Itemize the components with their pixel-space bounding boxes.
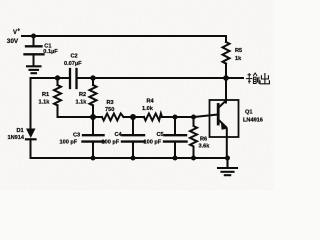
value label C5 100pF	[144, 132, 164, 146]
capacitor C3	[83, 117, 105, 158]
node junction dot rail3 / R6 top	[191, 115, 196, 120]
svg-text:C5: C5	[157, 132, 164, 138]
node junction dot rail3 / C3 top	[90, 114, 96, 120]
node junction dot C1 top	[31, 34, 36, 39]
svg-text:100 pF: 100 pF	[102, 140, 120, 146]
node junction dot bottom R6	[191, 156, 196, 161]
svg-text:1.0k: 1.0k	[142, 106, 154, 112]
svg-text:D1: D1	[17, 128, 24, 134]
node output label (Chinese: chu - output) drawn as strokes	[260, 73, 269, 84]
node junction dot bottom C5	[173, 156, 178, 161]
svg-text:1.1k: 1.1k	[39, 100, 51, 106]
node junction dot R1 top	[55, 75, 60, 80]
capacitor C5	[164, 117, 187, 158]
svg-text:750: 750	[105, 107, 114, 113]
svg-text:C3: C3	[73, 133, 80, 139]
resistor R1	[54, 78, 61, 117]
wire top rail	[22, 35, 226, 37]
wire collector column	[225, 78, 227, 100]
resistor R5	[223, 36, 230, 78]
node junction dot R2 top	[90, 75, 95, 80]
value label C4 100pF	[102, 132, 123, 146]
value label Q1 LN4916	[243, 110, 263, 124]
resistor R2	[90, 78, 97, 117]
svg-text:R6: R6	[200, 137, 207, 143]
capacitor C4	[122, 117, 145, 158]
svg-text:R1: R1	[42, 92, 49, 98]
node junction dot output / collector	[223, 75, 229, 81]
svg-text:C4: C4	[115, 132, 123, 138]
svg-text:100 pF: 100 pF	[144, 140, 162, 146]
value label C2 0.07uF	[64, 54, 82, 67]
svg-text:3.6k: 3.6k	[199, 144, 211, 150]
node junction dot bottom emitter	[225, 156, 230, 161]
resistor R4	[144, 114, 162, 121]
node V+ supply label	[7, 28, 20, 46]
svg-text:100 pF: 100 pF	[60, 140, 78, 146]
value label C1 0.1uF	[43, 44, 58, 55]
node junction dot bottom C4	[131, 156, 136, 161]
diode D1	[26, 78, 36, 158]
node junction dot rail3 / C4 top	[130, 114, 136, 120]
svg-text:1.1k: 1.1k	[76, 100, 88, 106]
svg-text:+: +	[17, 28, 20, 34]
svg-text:0.07µF: 0.07µF	[64, 61, 82, 67]
svg-text:1N914: 1N914	[8, 135, 25, 141]
wire rail2 right segment	[77, 77, 227, 79]
value label R3 750	[105, 100, 114, 113]
wire rail3 (R1 bottom across to transistor base)	[57, 105, 59, 117]
svg-text:1k: 1k	[235, 56, 242, 62]
svg-text:R4: R4	[147, 99, 155, 105]
value label C3 100pF	[60, 133, 81, 146]
value label R2 1.1k	[76, 92, 88, 106]
node output label (Chinese: shu - output) drawn as strokes	[246, 73, 259, 84]
capacitor C2	[70, 69, 77, 88]
svg-text:0.1µF: 0.1µF	[43, 49, 58, 55]
wire output lead	[226, 77, 243, 79]
svg-text:C2: C2	[71, 54, 78, 60]
resistor R3	[102, 114, 124, 121]
svg-text:R3: R3	[107, 100, 114, 106]
svg-text:30V: 30V	[7, 38, 19, 45]
resistor R6	[190, 117, 197, 158]
svg-text:R2: R2	[79, 92, 86, 98]
svg-text:Q1: Q1	[245, 110, 252, 116]
value label R5 1k	[235, 48, 242, 62]
wire bottom rail	[31, 157, 228, 159]
node junction dot bottom C3	[91, 156, 96, 161]
svg-text:LN4916: LN4916	[243, 118, 263, 124]
value label R4 1.0k	[142, 99, 155, 112]
ground (below emitter)	[218, 158, 237, 175]
node junction dot rail3 / C5 top	[173, 115, 178, 120]
ground (below C1)	[27, 66, 41, 73]
capacitor C1	[25, 36, 44, 66]
value label R1 1.1k	[39, 92, 51, 106]
value label R6 3.6k	[199, 137, 211, 150]
wire rail2 left segment	[31, 77, 71, 79]
transistor Q1	[210, 100, 239, 158]
svg-text:R5: R5	[235, 48, 242, 54]
value label D1 1N914	[8, 128, 25, 141]
